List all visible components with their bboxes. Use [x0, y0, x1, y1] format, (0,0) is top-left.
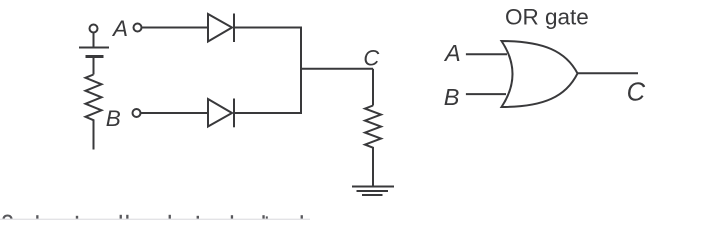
svg-text:C: C	[363, 45, 379, 70]
OR gate U1	[502, 41, 578, 107]
diode D2	[208, 99, 234, 128]
svg-text:B: B	[106, 106, 121, 131]
wire	[141, 112, 208, 114]
wire	[93, 33, 95, 47]
svg-text:A: A	[111, 16, 128, 41]
diode D1	[208, 14, 234, 43]
input terminal B	[133, 109, 141, 117]
wire	[234, 27, 302, 29]
wire	[93, 124, 95, 150]
wire	[578, 72, 639, 74]
wire	[466, 93, 506, 95]
battery terminal circle	[90, 25, 98, 33]
svg-text:B: B	[444, 84, 460, 110]
resistor R1	[86, 75, 102, 124]
wire	[93, 58, 95, 75]
wire to node C	[300, 68, 373, 70]
resistor R2	[365, 106, 381, 151]
svg-text:C: C	[627, 79, 646, 107]
svg-text:OR gate: OR gate	[505, 5, 589, 30]
ground	[352, 187, 394, 196]
wire	[466, 53, 507, 55]
input terminal A	[134, 24, 142, 32]
wire	[234, 112, 302, 114]
caption letter tops (text cut off at bottom edge)	[3, 215, 303, 221]
battery long plate	[79, 47, 109, 49]
wire junction vertical	[300, 28, 302, 114]
caption faint lowercase smear	[0, 219, 310, 220]
wire	[372, 69, 374, 106]
svg-text:A: A	[443, 40, 461, 66]
battery short plate	[86, 55, 104, 58]
wire	[372, 151, 374, 187]
wire	[142, 27, 208, 29]
